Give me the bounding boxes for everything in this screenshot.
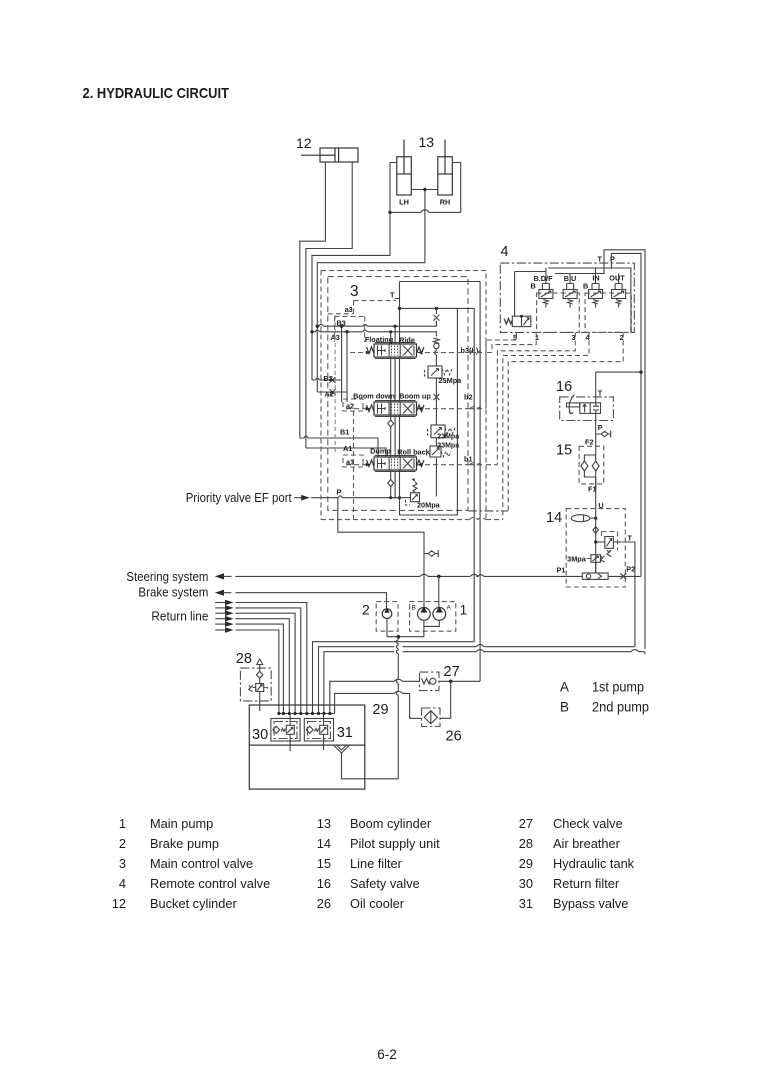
svg-text:Return line: Return line — [151, 609, 208, 624]
X mark gallery boom — [433, 394, 439, 400]
wire A3 tap — [312, 330, 436, 402]
svg-text:T: T — [390, 291, 395, 300]
svg-text:28: 28 — [236, 651, 252, 667]
pilot line a2 — [346, 408, 368, 410]
svg-text:Oil cooler: Oil cooler — [350, 896, 405, 911]
node suction — [397, 635, 401, 639]
svg-text:14: 14 — [317, 836, 331, 851]
svg-text:13: 13 — [317, 816, 331, 831]
steering arrow — [215, 573, 224, 579]
svg-text:Brake pump: Brake pump — [150, 836, 219, 851]
svg-text:20Mpa: 20Mpa — [417, 501, 441, 510]
tank fluid line — [249, 744, 364, 746]
svg-text:2: 2 — [362, 602, 370, 618]
wire A1 port — [306, 448, 386, 457]
wire to P1 line — [595, 562, 597, 573]
wire F1 to U — [595, 477, 597, 573]
pilot route port 4 — [503, 332, 589, 519]
oil cooler 26 — [422, 708, 440, 727]
pilot riser a-side lower — [353, 411, 355, 520]
wire valve3 return gallery right — [473, 308, 475, 642]
wire cyl12 left port staircase to B1 — [300, 162, 326, 438]
svg-text:P1: P1 — [557, 566, 566, 575]
legend column 3 — [519, 816, 635, 911]
main control valve 3 inner dash-dot box — [328, 277, 468, 511]
svg-text:1st pump: 1st pump — [592, 680, 644, 695]
safety valve 16 body — [567, 395, 601, 415]
pilot route port 2 — [508, 332, 623, 511]
remote control valve 4 box — [500, 263, 634, 332]
wire 27 to 26 — [440, 681, 451, 718]
X mark A2 — [330, 389, 336, 395]
spool valve boom — [367, 401, 425, 417]
reducing valve IN — [589, 284, 603, 308]
reducing valve OUT — [612, 284, 626, 308]
brake arrow — [215, 590, 224, 596]
wire 26 left to tank — [335, 693, 422, 718]
wire T gallery — [395, 282, 400, 498]
X mark P2 — [620, 573, 626, 579]
node rod-end left — [388, 211, 391, 214]
svg-text:a3: a3 — [345, 305, 353, 314]
pilot line a1 — [346, 464, 368, 466]
svg-text:B: B — [412, 605, 416, 612]
check port stub — [596, 431, 611, 438]
relief valve 25Mpa — [425, 366, 453, 378]
svg-text:Bucket cylinder: Bucket cylinder — [150, 896, 238, 911]
svg-text:Boom cylinder: Boom cylinder — [350, 816, 432, 831]
svg-text:25Mpa: 25Mpa — [439, 376, 463, 385]
pilot supply unit 14 box — [566, 509, 625, 587]
svg-text:16: 16 — [317, 876, 331, 891]
jogs steering — [420, 574, 484, 576]
return filter 30 — [271, 714, 300, 752]
svg-text:3: 3 — [119, 856, 126, 871]
anticavitation circle spring — [433, 338, 439, 343]
accumulator — [571, 515, 597, 522]
wire return header — [400, 307, 475, 309]
svg-text:4: 4 — [501, 244, 509, 260]
svg-text:Boom up: Boom up — [399, 392, 431, 401]
boom cylinder 13 RH — [438, 140, 453, 195]
pilot cap a3 step — [328, 301, 396, 314]
main control valve 3 outer dashed box — [321, 271, 486, 520]
node 27 — [449, 680, 453, 684]
reducing valve B.U — [563, 284, 577, 308]
wire center gallery 2 — [391, 332, 400, 498]
wire cyl13 head-end link — [411, 190, 438, 263]
pump B — [418, 606, 431, 620]
svg-text:1: 1 — [119, 816, 126, 831]
node P-line junctions — [389, 496, 392, 499]
hydraulic tank 29 — [249, 705, 364, 789]
jog 27 line — [394, 679, 402, 681]
filter 15 loop — [581, 446, 599, 490]
bypass valve 31 — [304, 714, 333, 751]
svg-text:Main control valve: Main control valve — [150, 856, 253, 871]
pilot route port 5 to b2 — [419, 332, 516, 408]
svg-text:B: B — [583, 282, 588, 291]
node head-end — [423, 188, 426, 191]
jog 26 line — [394, 691, 402, 693]
wire return line 5 — [235, 624, 283, 713]
svg-text:29: 29 — [519, 856, 533, 871]
svg-text:P2: P2 — [626, 565, 635, 574]
svg-text:A: A — [560, 680, 569, 695]
relief valve 23Mpa upper — [428, 425, 456, 438]
svg-text:A: A — [447, 605, 452, 612]
svg-text:Floating: Floating — [365, 335, 393, 344]
wire valve3 T return long — [479, 282, 481, 682]
wire return line 6 — [235, 630, 279, 714]
wire valve4 left feed to pilot valve — [515, 272, 546, 317]
svg-text:27: 27 — [519, 816, 533, 831]
svg-text:1: 1 — [460, 602, 468, 618]
pilot cap a1 — [343, 455, 363, 467]
svg-text:b3(L): b3(L) — [461, 346, 479, 355]
check port stub pump line — [424, 550, 438, 557]
pilot cap a2 — [343, 399, 363, 411]
X mark B2 — [330, 377, 336, 383]
svg-text:28: 28 — [519, 836, 533, 851]
svg-text:B1: B1 — [340, 428, 349, 437]
svg-text:Bypass valve: Bypass valve — [553, 896, 628, 911]
X mark relief gallery top — [433, 315, 439, 321]
legend column 1 — [112, 816, 270, 911]
wire valve4 P to steering rail — [611, 253, 641, 576]
wire pump A up — [438, 576, 440, 607]
svg-text:12: 12 — [296, 135, 312, 151]
svg-text:B: B — [560, 700, 569, 715]
suction strainer — [334, 745, 350, 753]
wire B3 tap — [317, 321, 436, 402]
svg-text:30: 30 — [519, 876, 533, 891]
svg-text:a2: a2 — [346, 402, 354, 411]
svg-text:1: 1 — [535, 333, 539, 342]
wire center gallery 3 — [394, 326, 396, 497]
valve4 sub box right — [585, 293, 631, 332]
pilot enclosure line lower — [321, 517, 503, 519]
suction jogs — [396, 640, 398, 696]
pilot box B3 — [335, 317, 365, 343]
main relief 20Mpa — [406, 478, 420, 505]
pilot route b3(L) — [419, 332, 536, 352]
wire cyl13 rod-end loop — [390, 163, 461, 213]
line filter 15 box — [579, 446, 604, 484]
svg-text:Roll back: Roll back — [397, 448, 430, 457]
wire return rail B — [319, 645, 635, 714]
jog b3 line — [470, 350, 482, 352]
svg-text:14: 14 — [546, 510, 562, 526]
svg-text:15: 15 — [556, 443, 572, 459]
safety valve 16 box — [560, 397, 614, 421]
wire return line 2 — [235, 608, 300, 714]
wire return line 1 — [235, 603, 306, 714]
wire valve4 internal P header — [546, 263, 631, 333]
svg-text:IN: IN — [592, 274, 599, 283]
svg-text:T: T — [628, 534, 633, 543]
svg-text:P: P — [337, 488, 342, 497]
jog b1 line — [470, 463, 482, 465]
wire inner return gallery — [400, 308, 458, 515]
wire return rail A — [313, 642, 475, 714]
check diamond on gallery — [388, 420, 394, 487]
svg-text:Ride: Ride — [399, 336, 415, 345]
svg-text:Line filter: Line filter — [350, 856, 403, 871]
wire relief gallery — [435, 308, 437, 496]
wire cyl13 head staircase to A2 — [317, 263, 425, 392]
svg-text:2. HYDRAULIC CIRCUIT: 2. HYDRAULIC CIRCUIT — [83, 85, 230, 102]
svg-text:OUT: OUT — [609, 274, 625, 283]
legend column 2 — [317, 816, 440, 911]
check valve 27 — [420, 672, 440, 691]
wire cyl12 right port staircase to A1 — [306, 162, 352, 448]
wire pump 2 down — [386, 619, 388, 637]
svg-text:F2: F2 — [585, 438, 594, 447]
svg-text:6-2: 6-2 — [377, 1047, 397, 1062]
svg-text:15: 15 — [317, 856, 331, 871]
svg-text:A2: A2 — [325, 390, 334, 399]
wire solenoid to T rail — [613, 542, 635, 647]
svg-text:4: 4 — [586, 333, 591, 342]
main pump 1 box — [410, 602, 456, 632]
svg-text:Brake system: Brake system — [138, 585, 208, 600]
bucket cylinder 12 — [301, 148, 358, 162]
wire A2 port — [317, 391, 347, 393]
pilot route port 3 to b1 — [419, 332, 575, 464]
pilot selector valve — [504, 315, 531, 327]
pump 2 — [382, 608, 392, 619]
svg-text:T: T — [598, 389, 603, 398]
relief 3Mpa — [587, 555, 605, 563]
svg-text:Dump: Dump — [370, 447, 391, 456]
boom cylinder 13 LH — [397, 140, 412, 195]
pilot line a3 — [350, 352, 368, 354]
wire P below 16 — [595, 413, 597, 446]
svg-text:3: 3 — [350, 283, 359, 300]
reducing valve B.D/F — [539, 284, 553, 308]
wire 27 right riser — [439, 680, 480, 682]
spool valve floating-ride — [367, 343, 425, 359]
wire return rail C — [324, 650, 645, 714]
svg-text:26: 26 — [317, 896, 331, 911]
air breather 28 — [240, 659, 271, 711]
wire pump suction — [342, 620, 440, 779]
wire B2 port — [312, 379, 341, 381]
svg-text:b1: b1 — [464, 455, 473, 464]
node pump A junction — [437, 575, 441, 579]
wire EF port line — [311, 496, 411, 498]
return arrows — [215, 600, 233, 633]
svg-text:Return filter: Return filter — [553, 876, 620, 891]
svg-text:Priority valve EF port: Priority valve EF port — [186, 490, 292, 505]
wire return line 4 — [235, 619, 289, 714]
EF arrow — [301, 495, 310, 501]
wire 27 left to tank — [330, 681, 420, 713]
svg-text:b2: b2 — [464, 393, 473, 402]
wire safety valve supply tap — [596, 372, 641, 403]
relief valve 23Mpa lower — [427, 446, 452, 457]
svg-text:T: T — [598, 255, 603, 264]
svg-text:A1: A1 — [343, 444, 352, 453]
svg-text:Steering system: Steering system — [126, 569, 208, 584]
wire top T header — [400, 281, 481, 283]
diamond on pilot line — [593, 527, 598, 534]
tank manifold — [279, 713, 335, 715]
svg-text:P: P — [610, 255, 615, 264]
svg-text:2nd pump: 2nd pump — [592, 700, 649, 715]
svg-text:4: 4 — [119, 876, 126, 891]
svg-text:Check valve: Check valve — [553, 816, 623, 831]
svg-text:a1: a1 — [346, 458, 354, 467]
svg-text:P: P — [598, 423, 603, 432]
brake pump 2 box — [376, 602, 398, 632]
svg-text:Pilot supply unit: Pilot supply unit — [350, 836, 440, 851]
svg-text:30: 30 — [252, 727, 268, 743]
P1 flow component — [582, 573, 608, 579]
wire P descent to pump B — [338, 498, 424, 607]
pump A — [433, 606, 446, 620]
svg-text:13: 13 — [419, 134, 435, 150]
pump legend — [560, 680, 649, 715]
svg-text:31: 31 — [337, 725, 353, 741]
svg-text:LH: LH — [399, 198, 409, 207]
svg-text:3Mpa: 3Mpa — [567, 555, 587, 564]
jog on rod-end loop — [421, 210, 429, 212]
svg-text:Main pump: Main pump — [150, 816, 213, 831]
svg-text:RH: RH — [440, 198, 451, 207]
wire return line 3 — [235, 613, 295, 713]
wire steering line — [235, 575, 641, 577]
svg-text:B.D/F: B.D/F — [533, 274, 553, 283]
svg-text:29: 29 — [372, 702, 388, 718]
manifold nodes — [277, 712, 331, 715]
svg-text:B: B — [531, 282, 536, 291]
svg-text:2: 2 — [119, 836, 126, 851]
solenoid valve 14 — [594, 532, 617, 557]
wire valve4 T to right rail — [604, 250, 645, 655]
svg-text:B.U: B.U — [564, 274, 577, 283]
svg-text:23Mpa: 23Mpa — [437, 434, 459, 441]
svg-text:Hydraulic tank: Hydraulic tank — [553, 856, 635, 871]
wire B1 port — [300, 438, 378, 457]
svg-text:26: 26 — [446, 729, 462, 745]
svg-text:12: 12 — [112, 896, 126, 911]
wire cyl13 rod staircase to B2 — [312, 212, 390, 380]
valve4 sub box left — [537, 293, 580, 332]
wire brake line — [235, 593, 386, 609]
pilot line a-side — [334, 315, 336, 455]
svg-text:31: 31 — [519, 896, 533, 911]
svg-text:Safety valve: Safety valve — [350, 876, 420, 891]
svg-text:16: 16 — [556, 379, 572, 395]
svg-text:Remote control valve: Remote control valve — [150, 876, 270, 891]
svg-text:Air breather: Air breather — [553, 836, 621, 851]
svg-text:27: 27 — [444, 664, 460, 680]
jog b2 line — [470, 407, 482, 409]
spool valve bucket — [367, 456, 425, 472]
svg-text:B3: B3 — [337, 318, 346, 327]
